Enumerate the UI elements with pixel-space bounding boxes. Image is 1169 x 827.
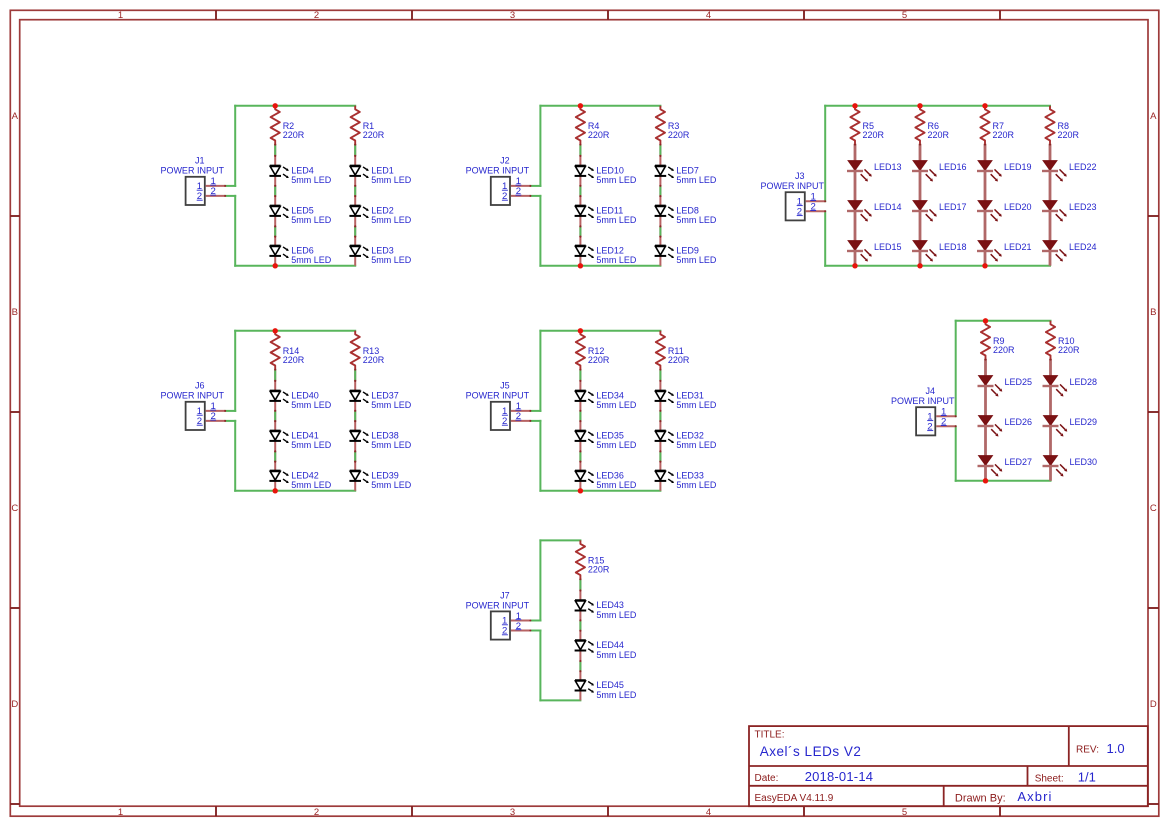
connector J7 POWER INPUT [466, 590, 530, 639]
wire/lead column at x=275.2 of J1 block [274, 143, 276, 265]
svg-text:5mm LED: 5mm LED [596, 650, 637, 660]
wire J6 pin 1 horizontal [225, 410, 235, 412]
wire J7 pin 2 horizontal [530, 630, 540, 632]
LED LED27 [978, 456, 1033, 477]
svg-text:LED10: LED10 [596, 165, 624, 175]
wire bottom rail of J7 block [540, 699, 580, 701]
wire J7 pin 1 horizontal [530, 620, 540, 622]
svg-text:LED44: LED44 [596, 640, 624, 650]
svg-text:LED36: LED36 [596, 470, 624, 480]
LED LED6 (5mm LED) [269, 245, 331, 265]
svg-text:220R: 220R [588, 564, 610, 574]
LED LED40 (5mm LED) [269, 390, 331, 410]
connector J3 POWER INPUT [760, 171, 824, 220]
LED LED28 [1043, 376, 1098, 397]
svg-text:POWER INPUT: POWER INPUT [466, 600, 530, 610]
LED LED38 (5mm LED) [349, 430, 411, 450]
svg-text:2: 2 [314, 10, 319, 21]
svg-text:5mm LED: 5mm LED [291, 175, 332, 185]
svg-text:5mm LED: 5mm LED [291, 400, 332, 410]
svg-text:LED8: LED8 [676, 205, 699, 215]
LED LED44 (5mm LED) [575, 640, 637, 660]
wire/lead column at x=580.4 of J2 block [579, 143, 581, 265]
svg-text:D: D [1150, 699, 1157, 710]
svg-text:5mm LED: 5mm LED [596, 175, 637, 185]
svg-text:Date:: Date: [755, 773, 779, 784]
wire left vertical from top rail to J3 pin 1 [824, 106, 826, 202]
svg-text:5: 5 [902, 807, 907, 818]
LED LED16 [912, 161, 967, 182]
svg-text:LED34: LED34 [596, 390, 624, 400]
wire J6 pin 2 horizontal [225, 420, 235, 422]
svg-text:LED12: LED12 [596, 245, 624, 255]
svg-text:1: 1 [118, 10, 123, 21]
svg-text:POWER INPUT: POWER INPUT [891, 396, 955, 406]
LED LED17 [912, 201, 967, 222]
resistor R1 [351, 106, 385, 144]
wire top rail of J7 block [540, 539, 580, 541]
svg-text:LED39: LED39 [371, 470, 399, 480]
svg-text:5mm LED: 5mm LED [596, 255, 637, 265]
wire left vertical from J2 pin 2 to bottom rail [539, 196, 541, 266]
svg-text:LED30: LED30 [1070, 457, 1098, 467]
LED LED11 (5mm LED) [575, 205, 637, 225]
junction dot at (985.5,320.8) [983, 318, 988, 323]
LED LED8 (5mm LED) [655, 205, 717, 225]
wire left vertical from J3 pin 2 to bottom rail [824, 211, 826, 265]
J4 pin 1 lead [927, 407, 957, 423]
ruler ticks left [10, 216, 19, 804]
svg-text:5mm LED: 5mm LED [371, 255, 412, 265]
svg-text:LED35: LED35 [596, 430, 624, 440]
wire bottom rail of J4 block [956, 480, 1051, 482]
svg-text:LED27: LED27 [1005, 457, 1033, 467]
svg-text:POWER INPUT: POWER INPUT [160, 166, 224, 176]
svg-text:4: 4 [706, 807, 711, 818]
svg-text:5mm LED: 5mm LED [596, 690, 637, 700]
J3 pin 1 lead [797, 192, 827, 208]
svg-text:J4: J4 [925, 386, 935, 396]
J2 pin 1 lead [502, 176, 532, 192]
J3 pin 2 lead [797, 202, 827, 218]
svg-text:LED13: LED13 [874, 162, 902, 172]
wire left vertical from top rail to J7 pin 1 [539, 540, 541, 620]
LED LED43 (5mm LED) [575, 600, 637, 620]
svg-text:LED24: LED24 [1069, 242, 1097, 252]
svg-text:2: 2 [811, 202, 816, 213]
LED LED39 (5mm LED) [349, 470, 411, 490]
svg-text:5mm LED: 5mm LED [596, 480, 637, 490]
svg-text:3: 3 [510, 10, 515, 21]
junction dot at (275.2,330.8) [273, 328, 278, 333]
svg-text:LED32: LED32 [676, 430, 704, 440]
LED LED33 (5mm LED) [655, 470, 717, 490]
J7 pin 1 lead [502, 611, 532, 627]
J5 pin 2 lead [502, 411, 532, 427]
wire left vertical from top rail to J5 pin 1 [539, 331, 541, 411]
ruler ticks bottom [216, 806, 1000, 816]
svg-text:POWER INPUT: POWER INPUT [466, 166, 530, 176]
svg-text:220R: 220R [363, 355, 385, 365]
svg-text:J2: J2 [500, 156, 510, 166]
svg-text:LED25: LED25 [1005, 377, 1033, 387]
junction dot at (580.4,330.8) [578, 328, 583, 333]
LED LED42 (5mm LED) [269, 470, 331, 490]
lead column at x=1050 of J3 block [1049, 144, 1052, 266]
svg-text:LED28: LED28 [1070, 377, 1098, 387]
wire J1 pin 1 horizontal [225, 185, 235, 187]
svg-text:2: 2 [314, 807, 319, 818]
ruler column numbers bottom [118, 807, 907, 818]
svg-text:J6: J6 [195, 381, 205, 391]
svg-text:5mm LED: 5mm LED [676, 480, 717, 490]
svg-text:POWER INPUT: POWER INPUT [160, 391, 224, 401]
lead column at x=1050.5 of J4 block [1049, 359, 1052, 481]
ruler row letters right [1150, 111, 1157, 710]
svg-text:5mm LED: 5mm LED [291, 480, 332, 490]
svg-text:LED21: LED21 [1004, 242, 1032, 252]
LED LED31 (5mm LED) [655, 390, 717, 410]
svg-text:220R: 220R [668, 130, 690, 140]
svg-text:1: 1 [118, 807, 123, 818]
LED LED23 [1042, 201, 1097, 222]
wire top rail of J6 block [235, 330, 355, 332]
wire J2 pin 1 horizontal [530, 185, 540, 187]
wire bottom rail of J6 block [235, 490, 355, 492]
svg-text:B: B [1150, 307, 1156, 318]
svg-text:220R: 220R [1058, 345, 1080, 355]
junction dot at (275.2,490.8) [273, 488, 278, 493]
svg-text:5mm LED: 5mm LED [371, 215, 412, 225]
wire/lead column at x=355.2 of J1 block [354, 143, 356, 265]
svg-text:5mm LED: 5mm LED [676, 215, 717, 225]
J2 pin 2 lead [502, 186, 532, 202]
svg-text:LED9: LED9 [676, 245, 699, 255]
ruler ticks right [1148, 216, 1159, 804]
LED LED14 [847, 201, 902, 222]
resistor R9 [981, 321, 1015, 359]
LED LED26 [978, 416, 1033, 437]
junction dot at (580.4,105.8) [578, 103, 583, 108]
svg-text:J1: J1 [195, 156, 205, 166]
LED LED36 (5mm LED) [575, 470, 637, 490]
svg-text:Sheet:: Sheet: [1035, 773, 1064, 784]
LED LED20 [977, 201, 1032, 222]
svg-text:LED2: LED2 [371, 205, 394, 215]
svg-text:2: 2 [211, 411, 216, 422]
J4 pin 2 lead [927, 417, 957, 433]
LED LED2 (5mm LED) [349, 205, 411, 225]
resistor R14 [271, 331, 305, 369]
svg-text:A: A [1150, 111, 1157, 122]
svg-text:LED41: LED41 [291, 430, 319, 440]
junction dot at (855,105.8) [852, 103, 857, 108]
svg-text:220R: 220R [993, 130, 1015, 140]
ruler row letters left [11, 111, 18, 710]
junction dot at (275.2,105.8) [273, 103, 278, 108]
resistor R6 [915, 106, 949, 144]
LED LED19 [977, 161, 1032, 182]
LED LED45 (5mm LED) [575, 680, 637, 700]
svg-text:220R: 220R [283, 130, 305, 140]
J1 pin 2 lead [197, 186, 227, 202]
LED LED10 (5mm LED) [575, 165, 637, 185]
lead column at x=985.5 of J4 block [984, 359, 987, 481]
svg-text:5mm LED: 5mm LED [371, 175, 412, 185]
svg-text:B: B [12, 307, 18, 318]
wire bottom rail of J2 block [540, 265, 660, 267]
wire J5 pin 1 horizontal [530, 410, 540, 412]
svg-text:5mm LED: 5mm LED [676, 175, 717, 185]
J6 pin 2 lead [197, 411, 227, 427]
svg-text:2018-01-14: 2018-01-14 [805, 769, 874, 784]
svg-text:TITLE:: TITLE: [755, 730, 785, 741]
wire left vertical from top rail to J1 pin 1 [234, 106, 236, 186]
svg-text:220R: 220R [1058, 130, 1080, 140]
svg-text:LED7: LED7 [676, 165, 699, 175]
svg-text:LED45: LED45 [596, 680, 624, 690]
LED LED15 [847, 241, 902, 262]
wire bottom rail of J1 block [235, 265, 355, 267]
LED LED24 [1042, 241, 1097, 262]
svg-text:POWER INPUT: POWER INPUT [760, 181, 824, 191]
LED LED41 (5mm LED) [269, 430, 331, 450]
connector J4 POWER INPUT [891, 386, 955, 435]
svg-text:LED22: LED22 [1069, 162, 1097, 172]
LED LED35 (5mm LED) [575, 430, 637, 450]
LED LED4 (5mm LED) [269, 165, 331, 185]
wire top rail of J1 block [235, 105, 355, 107]
svg-text:LED31: LED31 [676, 390, 704, 400]
svg-text:LED23: LED23 [1069, 202, 1097, 212]
connector J5 POWER INPUT [466, 381, 530, 430]
resistor R10 [1046, 321, 1080, 359]
wire/lead column at x=660.4 of J2 block [659, 143, 661, 265]
svg-text:Drawn By:: Drawn By: [955, 792, 1006, 804]
LED LED12 (5mm LED) [575, 245, 637, 265]
svg-text:5mm LED: 5mm LED [291, 440, 332, 450]
LED LED1 (5mm LED) [349, 165, 411, 185]
resistor R4 [576, 106, 610, 144]
wire left vertical from top rail to J4 pin 1 [955, 321, 957, 417]
J1 pin 1 lead [197, 176, 227, 192]
svg-text:EasyEDA V4.11.9: EasyEDA V4.11.9 [755, 793, 834, 804]
title block frame [749, 726, 1148, 806]
LED LED13 [847, 161, 902, 182]
wire left vertical from top rail to J6 pin 1 [234, 331, 236, 411]
wire/lead column at x=580.4 of J7 block [579, 578, 581, 700]
junction dot at (580.4,265.8) [578, 263, 583, 268]
svg-text:REV:: REV: [1076, 744, 1099, 755]
svg-text:LED33: LED33 [676, 470, 704, 480]
svg-text:LED38: LED38 [371, 430, 399, 440]
svg-text:5: 5 [902, 10, 907, 21]
resistor R13 [351, 331, 385, 369]
svg-text:LED3: LED3 [371, 245, 394, 255]
svg-text:5mm LED: 5mm LED [596, 440, 637, 450]
svg-text:5mm LED: 5mm LED [676, 255, 717, 265]
junction dot at (985,105.8) [982, 103, 987, 108]
LED LED3 (5mm LED) [349, 245, 411, 265]
svg-text:LED6: LED6 [291, 245, 314, 255]
resistor R7 [980, 106, 1014, 144]
svg-text:220R: 220R [283, 355, 305, 365]
svg-text:J5: J5 [500, 381, 510, 391]
svg-text:LED43: LED43 [596, 600, 624, 610]
ruler column numbers top [118, 10, 907, 21]
svg-text:LED1: LED1 [371, 165, 394, 175]
LED LED25 [978, 376, 1033, 397]
svg-text:A: A [12, 111, 19, 122]
svg-text:LED5: LED5 [291, 205, 314, 215]
svg-text:LED40: LED40 [291, 390, 319, 400]
lead column at x=855 of J3 block [854, 144, 857, 266]
svg-text:5mm LED: 5mm LED [676, 440, 717, 450]
svg-text:1/1: 1/1 [1078, 769, 1096, 784]
svg-text:5mm LED: 5mm LED [371, 400, 412, 410]
wire left vertical from J5 pin 2 to bottom rail [539, 421, 541, 491]
svg-text:220R: 220R [668, 355, 690, 365]
svg-text:220R: 220R [588, 130, 610, 140]
resistor R3 [656, 106, 690, 144]
junction dot at (580.4,490.8) [578, 488, 583, 493]
LED LED32 (5mm LED) [655, 430, 717, 450]
resistor R5 [850, 106, 884, 144]
connector J2 POWER INPUT [466, 156, 530, 205]
svg-text:LED37: LED37 [371, 390, 399, 400]
LED LED37 (5mm LED) [349, 390, 411, 410]
resistor R8 [1045, 106, 1079, 144]
wire left vertical from J4 pin 2 to bottom rail [955, 426, 957, 481]
junction dot at (920,105.8) [917, 103, 922, 108]
lead column at x=985 of J3 block [984, 144, 987, 266]
svg-text:J3: J3 [795, 171, 805, 181]
wire top rail of J4 block [956, 320, 1051, 322]
svg-text:LED11: LED11 [596, 205, 623, 215]
wire left vertical from J6 pin 2 to bottom rail [234, 421, 236, 491]
LED LED29 [1043, 416, 1098, 437]
wire/lead column at x=355.2 of J6 block [354, 368, 356, 490]
svg-text:C: C [11, 503, 18, 514]
wire J1 pin 2 horizontal [225, 195, 235, 197]
svg-text:5mm LED: 5mm LED [291, 215, 332, 225]
svg-text:C: C [1150, 503, 1157, 514]
svg-text:220R: 220R [363, 130, 385, 140]
connector J1 POWER INPUT [160, 156, 224, 205]
svg-text:5mm LED: 5mm LED [371, 480, 412, 490]
svg-text:POWER INPUT: POWER INPUT [466, 391, 530, 401]
lead column at x=920 of J3 block [919, 144, 922, 266]
LED LED5 (5mm LED) [269, 205, 331, 225]
svg-text:2: 2 [941, 417, 946, 428]
svg-text:LED20: LED20 [1004, 202, 1032, 212]
svg-text:LED14: LED14 [874, 202, 902, 212]
svg-text:5mm LED: 5mm LED [291, 255, 332, 265]
wire left vertical from top rail to J2 pin 1 [539, 106, 541, 186]
svg-text:4: 4 [706, 10, 711, 21]
svg-text:LED17: LED17 [939, 202, 967, 212]
junction dot at (855,265.8) [852, 263, 857, 268]
LED LED18 [912, 241, 967, 262]
wire J2 pin 2 horizontal [530, 195, 540, 197]
svg-text:5mm LED: 5mm LED [596, 215, 637, 225]
svg-text:LED16: LED16 [939, 162, 967, 172]
junction dot at (920,265.8) [917, 263, 922, 268]
svg-text:LED42: LED42 [291, 470, 319, 480]
LED LED34 (5mm LED) [575, 390, 637, 410]
junction dot at (985.5,480.8) [983, 478, 988, 483]
wire bottom rail of J5 block [540, 490, 660, 492]
svg-text:220R: 220R [588, 355, 610, 365]
svg-text:J7: J7 [500, 590, 510, 600]
svg-text:220R: 220R [928, 130, 950, 140]
junction dot at (275.2,265.8) [273, 263, 278, 268]
svg-text:LED4: LED4 [291, 165, 314, 175]
svg-text:D: D [11, 699, 18, 710]
resistor R12 [576, 331, 610, 369]
wire left vertical from J1 pin 2 to bottom rail [234, 196, 236, 266]
svg-text:220R: 220R [863, 130, 885, 140]
J7 pin 2 lead [502, 621, 532, 637]
wire top rail of J2 block [540, 105, 660, 107]
svg-text:5mm LED: 5mm LED [596, 610, 637, 620]
wire/lead column at x=275.2 of J6 block [274, 368, 276, 490]
J5 pin 1 lead [502, 401, 532, 417]
LED LED22 [1042, 161, 1097, 182]
svg-text:LED26: LED26 [1005, 417, 1033, 427]
svg-text:5mm LED: 5mm LED [596, 400, 637, 410]
svg-text:5mm LED: 5mm LED [676, 400, 717, 410]
LED LED21 [977, 241, 1032, 262]
LED LED7 (5mm LED) [655, 165, 717, 185]
svg-text:LED15: LED15 [874, 242, 902, 252]
svg-text:1.0: 1.0 [1107, 741, 1125, 756]
svg-text:LED19: LED19 [1004, 162, 1032, 172]
J6 pin 1 lead [197, 401, 227, 417]
svg-text:Axbri: Axbri [1017, 789, 1052, 804]
wire/lead column at x=660.4 of J5 block [659, 368, 661, 490]
svg-text:LED18: LED18 [939, 242, 967, 252]
resistor R15 [576, 540, 610, 578]
ruler ticks top [216, 10, 1000, 19]
LED LED30 [1043, 456, 1098, 477]
wire bottom rail of J3 block [825, 265, 1050, 267]
wire top rail of J5 block [540, 330, 660, 332]
resistor R2 [271, 106, 305, 144]
wire left vertical from J7 pin 2 to bottom rail [539, 631, 541, 701]
resistor R11 [656, 331, 690, 369]
svg-text:2: 2 [516, 411, 521, 422]
junction dot at (985,265.8) [982, 263, 987, 268]
connector J6 POWER INPUT [160, 381, 224, 430]
wire top rail of J3 block [825, 105, 1050, 107]
wire J5 pin 2 horizontal [530, 420, 540, 422]
svg-text:3: 3 [510, 807, 515, 818]
LED LED9 (5mm LED) [655, 245, 717, 265]
svg-text:Axel´s LEDs V2: Axel´s LEDs V2 [760, 744, 862, 759]
svg-text:LED29: LED29 [1070, 417, 1098, 427]
svg-text:5mm LED: 5mm LED [371, 440, 412, 450]
wire/lead column at x=580.4 of J5 block [579, 368, 581, 490]
svg-text:220R: 220R [993, 345, 1015, 355]
